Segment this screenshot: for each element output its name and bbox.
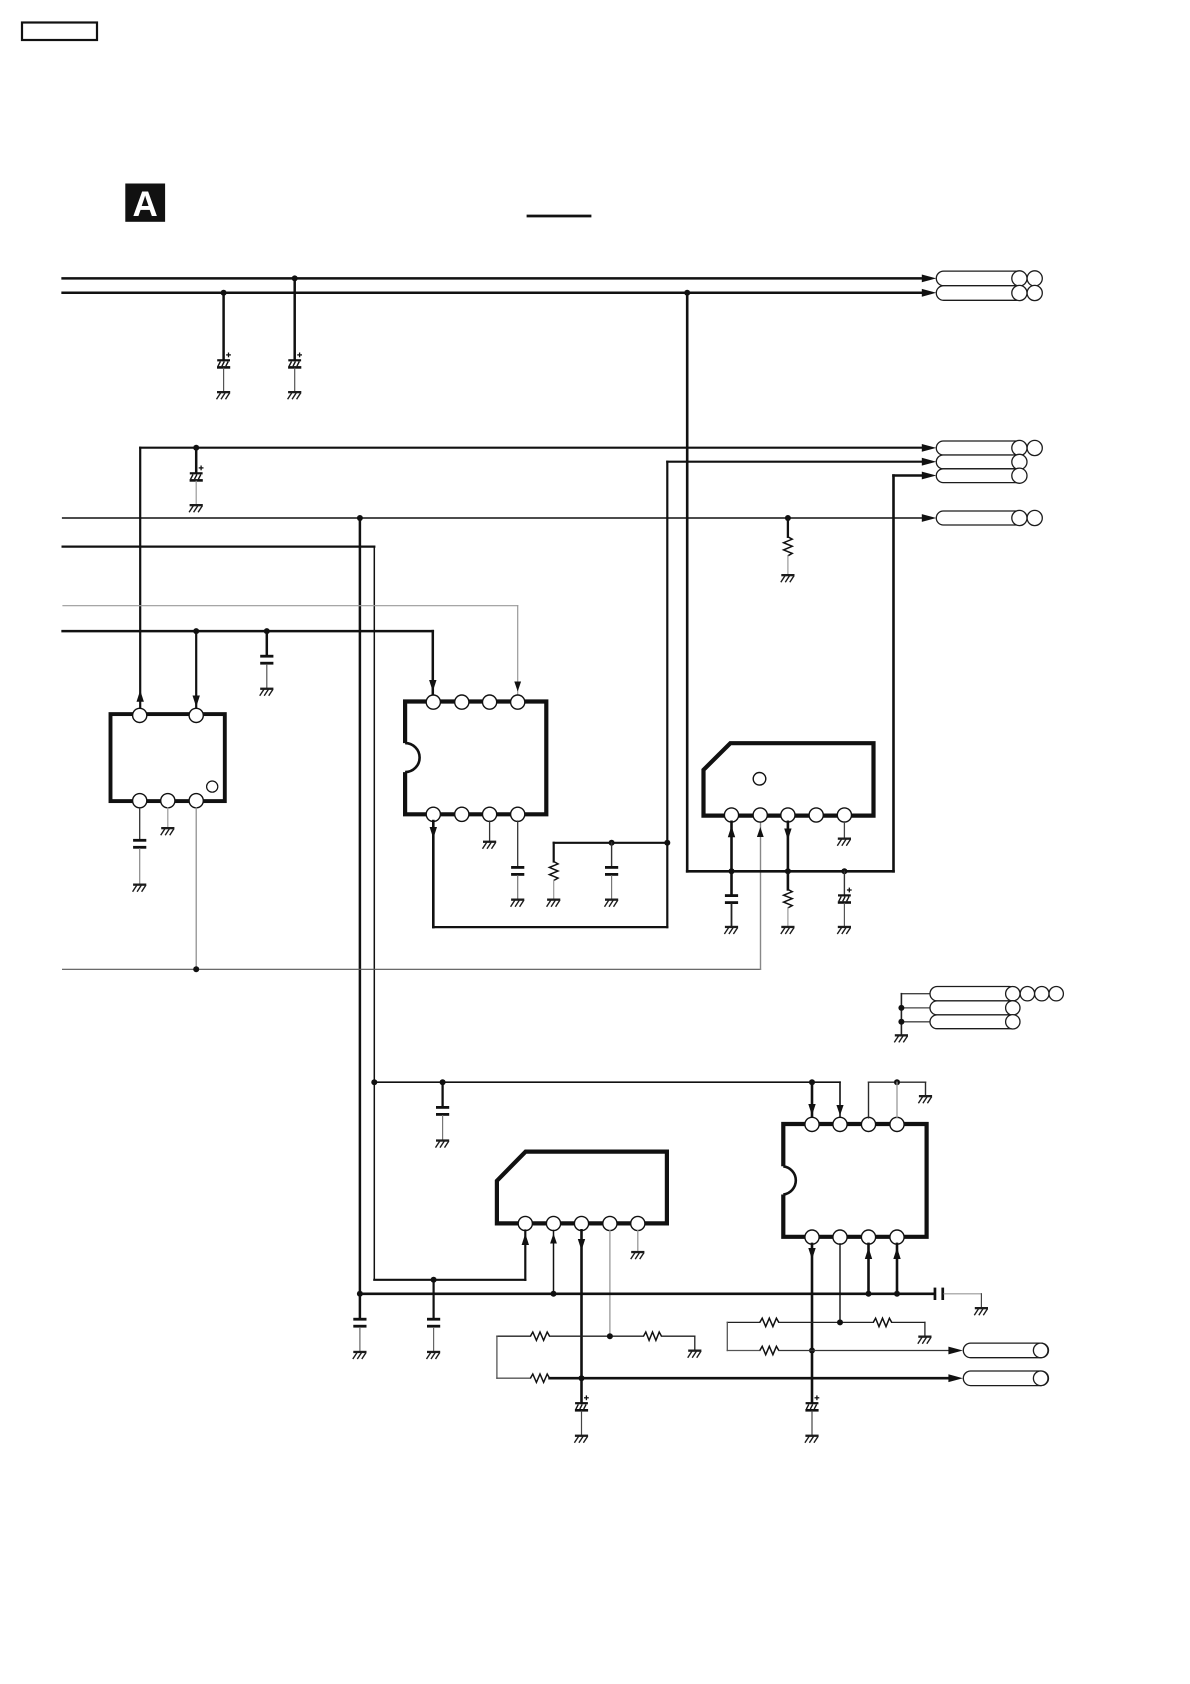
arrow into U3 pin 2 xyxy=(757,827,764,837)
ground at U5 bracket xyxy=(918,1095,932,1103)
wire cap C8 lead xyxy=(730,871,733,894)
junction second rail right xyxy=(684,290,690,296)
arrow into U5 pin 1 xyxy=(808,1104,815,1116)
arrow into U4 pin 2 xyxy=(550,1234,557,1244)
connector CN3 pin 3 (pill) xyxy=(930,1015,1020,1029)
junction feed at C11 xyxy=(431,1277,437,1283)
U5 pin 7 (bottom) xyxy=(861,1230,875,1244)
wire cap C4 lead xyxy=(266,631,269,655)
wire net to CN2 pin 4 xyxy=(63,517,924,519)
wire U5 pin5 down xyxy=(811,1244,814,1402)
wire U2 pin5 down xyxy=(432,821,435,927)
ground under U3 pin 5 xyxy=(837,838,851,846)
junction y1082 at U5 pin1 xyxy=(809,1079,815,1085)
wire vertical to U3 pin 2 xyxy=(760,823,762,969)
wire CN3 pin2 lead xyxy=(901,1007,930,1009)
U5 pin 8 (bottom) xyxy=(890,1230,904,1244)
wire U5 pin7 down xyxy=(867,1244,870,1294)
wire C6 to ground xyxy=(517,876,519,899)
connector CN2 pin 2 (pill) xyxy=(936,454,1027,469)
junction RC net at x=667 xyxy=(664,840,670,846)
wire CN3 pin1 lead xyxy=(901,993,930,995)
arrow out of U4 pin 3 xyxy=(578,1239,585,1251)
wire CN3 pin3 lead xyxy=(901,1021,930,1023)
U4 pin 2 xyxy=(546,1216,560,1230)
junction y871 at C9 xyxy=(841,868,847,874)
junction output at U4 pin3 xyxy=(579,1375,585,1381)
resistor R5 xyxy=(644,1332,662,1340)
wire fb row1 to ground xyxy=(924,1322,926,1335)
arrow to connector CN4 pin 1 xyxy=(948,1347,963,1355)
junction U5 pin5 at net xyxy=(809,1348,815,1354)
wire U4 pin3 down xyxy=(580,1230,583,1402)
arrow to connector CN4 pin 2 xyxy=(948,1374,963,1382)
junction y1082 at C10 xyxy=(440,1079,446,1085)
ground under C1 xyxy=(217,391,231,399)
U4 pin 3 xyxy=(574,1216,588,1230)
arrow into U3 pin 1 xyxy=(728,826,735,838)
wire U4 pin5 lead xyxy=(637,1230,639,1251)
capacitor C15 (electrolytic, U4 output) xyxy=(575,1395,589,1411)
wire vertical x=360 (to bottom rail) xyxy=(359,518,362,1294)
arrow out of U5 pin 5 xyxy=(808,1248,815,1260)
arrow into U5 pin 8 xyxy=(893,1248,900,1260)
junction rail at U5 pin3 xyxy=(866,1291,872,1297)
wire U1 pin4 lead xyxy=(167,808,169,827)
wire feed to U4 pin 1 xyxy=(374,1231,525,1280)
capacitor C5 under U1 xyxy=(133,839,146,849)
wire to CN2 pin 3 xyxy=(894,474,924,477)
resistor R7 xyxy=(760,1318,779,1326)
wire vertical to U1 pin 1 xyxy=(139,448,141,709)
U1 pin 4 (bottom) xyxy=(161,794,175,808)
wire corner to U5 pin 2 xyxy=(839,1082,841,1116)
arrow to connector CN2 pin 4 xyxy=(922,514,937,522)
ground after C13 xyxy=(974,1307,988,1315)
U5 pin 6 (bottom) xyxy=(833,1230,847,1244)
wire U4 pin4 lead xyxy=(609,1230,611,1336)
capacitor C7 xyxy=(605,866,618,876)
arrow out of U3 pin 3 xyxy=(784,829,791,841)
U3 pin 4 xyxy=(809,808,823,822)
wire R2 to ground xyxy=(553,881,555,899)
arrow into U4 pin 1 xyxy=(522,1234,529,1246)
U1 pin 1 (top) xyxy=(133,708,147,722)
junction at R1 tap xyxy=(785,515,791,521)
wire cap C2 lead xyxy=(293,278,296,359)
wire vertical x=893 xyxy=(892,476,895,872)
wire U1 pin3 lead xyxy=(139,808,141,840)
arrow to connector CN1 pin 1 xyxy=(922,275,937,283)
wire C10 to ground xyxy=(442,1116,444,1140)
ground under C8 xyxy=(724,926,738,934)
wire C2 to ground xyxy=(294,368,296,391)
U5 pin 1 (top) xyxy=(805,1117,819,1131)
wire U1 pin5 lead xyxy=(195,808,197,970)
connector CN4 pin 1 (pill) xyxy=(963,1343,1048,1358)
U2 pin 8 (bottom) xyxy=(511,807,525,821)
wire vertical to U2 pin 4 xyxy=(517,606,519,694)
wire U3 bottom net y=871 xyxy=(687,870,893,873)
capacitor C2 (electrolytic) xyxy=(288,353,302,369)
arrow to connector CN2 pin 3 xyxy=(922,472,937,480)
IC U4 xyxy=(497,1152,667,1224)
IC U5 xyxy=(783,1124,926,1237)
resistor R2 xyxy=(549,862,558,881)
U2 pin 1 (top) xyxy=(426,695,440,709)
capacitor C4 xyxy=(260,655,273,665)
ground under R3 xyxy=(781,926,795,934)
resistor R2 lead xyxy=(553,843,555,862)
wire cap C11 lead xyxy=(433,1280,435,1318)
wire bus (second rail) xyxy=(63,292,924,295)
U4 pin 5 xyxy=(631,1216,645,1230)
wire C14 to ground xyxy=(811,1411,813,1434)
ground under C14 xyxy=(805,1435,819,1443)
wire U4 output net xyxy=(550,1377,950,1380)
junction rail at U4 pin2 xyxy=(551,1291,557,1297)
wire C12 to ground xyxy=(359,1328,361,1351)
connector CN3 pin 1 (pill) xyxy=(930,987,1063,1001)
wire cap C10 lead xyxy=(441,1082,443,1106)
U1 index mark xyxy=(207,781,218,792)
capacitor C1 (electrolytic) xyxy=(217,353,231,369)
capacitor C12 xyxy=(353,1318,366,1328)
U4 pin 1 xyxy=(518,1216,532,1230)
capacitor C9 (electrolytic) xyxy=(838,888,852,904)
wire supply net y=1082 xyxy=(374,1081,840,1083)
junction at x=360 drop xyxy=(357,515,363,521)
wire net row 4 left xyxy=(63,630,433,633)
wire U5 fb row2 xyxy=(727,1350,760,1352)
U3 pin 1 xyxy=(724,808,738,822)
wire U4 fb row2 xyxy=(497,1377,531,1379)
wire net to CN2 pin 1 xyxy=(140,447,923,449)
connector CN1 pin 2 (pill) xyxy=(936,285,1042,300)
wire bottom rail y=1293 xyxy=(360,1293,934,1296)
junction rail at U5 pin4 xyxy=(894,1291,900,1297)
wire vertical x=687 (rail to U3 net) xyxy=(686,293,689,872)
resistor R9 xyxy=(760,1346,779,1354)
wire U4 fb row1 xyxy=(497,1335,695,1337)
wire U4 pin2 down xyxy=(553,1231,555,1294)
wire C5 to ground xyxy=(139,849,141,884)
U3 pin 3 xyxy=(781,808,795,822)
capacitor C11 xyxy=(427,1318,440,1328)
wire cap C1 lead xyxy=(222,293,225,360)
IC U2 xyxy=(405,702,546,815)
arrow out of U1 pin 1 xyxy=(137,690,144,702)
arrow into U2 pin 4 xyxy=(514,682,521,692)
U3 pin 2 xyxy=(753,808,767,822)
section marker A xyxy=(125,184,165,225)
U2 pin 7 (bottom) xyxy=(483,807,497,821)
capacitor C13 (series, rail end) xyxy=(934,1288,982,1307)
wire RC net xyxy=(554,842,668,844)
connector CN4 pin 2 (pill) xyxy=(963,1371,1048,1386)
U5 pin 2 (top) xyxy=(833,1117,847,1131)
ground under C3 xyxy=(189,504,203,512)
wire bottom return y=927 xyxy=(433,926,667,928)
junction y871 at R3 xyxy=(785,868,791,874)
resistor R4 xyxy=(530,1332,549,1340)
junction rail at x=360 xyxy=(357,1291,363,1297)
wire C3 to ground xyxy=(195,481,197,504)
ground under U4 pin 5 xyxy=(631,1251,645,1259)
resistor R8 xyxy=(873,1318,891,1326)
label box (top-left) xyxy=(22,23,97,41)
U2 pin 2 (top) xyxy=(455,695,469,709)
U3 pin 5 xyxy=(837,808,851,822)
ground under C4 xyxy=(260,688,274,696)
wire vertical x=667 xyxy=(666,462,668,927)
junction second rail left xyxy=(221,290,227,296)
ground under C12 xyxy=(353,1351,367,1359)
wire U5 pin8 down xyxy=(896,1244,899,1294)
U1 pin 3 (bottom) xyxy=(133,794,147,808)
U2 pin 4 (top) xyxy=(511,695,525,709)
wire bus B+ (top rail) xyxy=(63,277,924,280)
ground at U4 fb xyxy=(688,1350,702,1358)
wire U5 fb row1 xyxy=(727,1321,925,1323)
wire C7 to ground xyxy=(611,876,613,899)
junction to U1 pin 2 xyxy=(193,628,199,634)
U5 pin 4 (top) xyxy=(890,1117,904,1131)
svg-text:A: A xyxy=(133,185,158,224)
junction CN3 pin3 xyxy=(898,1019,904,1025)
wire cap C12 lead xyxy=(359,1294,362,1318)
ground under C10 xyxy=(436,1139,450,1147)
resistor R3 lead xyxy=(787,871,790,889)
IC U1 xyxy=(111,714,225,801)
arrow out of U2 pin 5 xyxy=(430,827,437,839)
ground under U2 pin 7 xyxy=(483,841,497,849)
connector CN1 pin 1 (pill) xyxy=(936,271,1042,286)
wire U4 fb left link xyxy=(496,1336,498,1378)
capacitor C10 xyxy=(436,1106,449,1116)
wire CN3 ground bus xyxy=(900,994,902,1034)
wire U5 output net xyxy=(779,1350,950,1352)
wire U3 pin1 down xyxy=(730,822,733,872)
wire R1 to ground xyxy=(787,556,789,574)
junction CN3 pin2 xyxy=(898,1005,904,1011)
resistor R1 lead xyxy=(787,518,789,537)
connector CN2 pin 4 (pill) xyxy=(936,510,1042,525)
wire U2 pin8 lead xyxy=(517,821,519,866)
wire C15 to ground xyxy=(581,1411,583,1434)
ground under C5 xyxy=(133,884,147,892)
wire vertical to U2 pin 1 xyxy=(432,631,435,694)
wire vertical to U1 pin 2 xyxy=(195,631,197,709)
arrow to connector CN2 pin 2 xyxy=(922,458,937,466)
junction on top rail xyxy=(292,275,298,281)
capacitor C6 under U2 xyxy=(511,866,524,876)
resistor R3 xyxy=(784,889,793,908)
capacitor C8 xyxy=(725,894,738,904)
arrow to connector CN2 pin 1 xyxy=(922,444,937,452)
ground CN3 xyxy=(894,1034,908,1042)
junction RC net at C7 xyxy=(609,840,615,846)
connector CN2 pin 1 (pill) xyxy=(936,440,1042,455)
title underline xyxy=(528,215,590,218)
IC U3 xyxy=(704,743,874,815)
arrow into U1 pin 2 xyxy=(193,696,200,708)
ground at U5 fb xyxy=(918,1336,932,1344)
U3 index mark xyxy=(753,773,766,786)
wire C1 to ground xyxy=(223,368,225,391)
wire cap C7 lead xyxy=(611,843,613,866)
ground under R2 xyxy=(547,899,561,907)
wire to CN2 pin 2 xyxy=(667,461,923,463)
junction y871 at C8 xyxy=(729,868,735,874)
wire into U5 pin 1 xyxy=(811,1082,814,1116)
ground under U1 pin 4 xyxy=(161,827,175,835)
wire U5 pin4 lead xyxy=(896,1082,898,1118)
capacitor C14 (electrolytic) xyxy=(805,1395,819,1411)
ground under C9 xyxy=(837,926,851,934)
wire R3 to ground xyxy=(787,908,789,926)
U2 pin 6 (bottom) xyxy=(455,807,469,821)
wire C9 to ground xyxy=(843,903,845,925)
wire C8 to ground xyxy=(731,904,733,926)
arrow to connector CN1 pin 2 xyxy=(922,289,937,297)
wire cap C9 lead xyxy=(843,871,845,894)
junction at C3 tap xyxy=(193,445,199,451)
arrow into U5 pin 7 xyxy=(865,1248,872,1260)
ground under R1 xyxy=(781,574,795,582)
wire net row 3 left (signal) xyxy=(63,605,518,607)
wire vertical x=374 xyxy=(373,547,375,1280)
U1 pin 2 (top) xyxy=(189,708,203,722)
junction fb row1 at U5 pin6 xyxy=(837,1319,843,1325)
wire U2 pin7 lead xyxy=(489,821,491,841)
wire cap C3 lead xyxy=(195,448,198,473)
arrow into U5 pin 2 xyxy=(836,1105,843,1116)
capacitor C3 (electrolytic) xyxy=(190,466,204,482)
ground under C7 xyxy=(605,899,619,907)
connector CN3 pin 2 (pill) xyxy=(930,1001,1020,1015)
wire U5 pin3 bracket xyxy=(869,1082,926,1118)
resistor R1 xyxy=(784,537,793,556)
wire U5 fb left link xyxy=(726,1322,728,1350)
ground under C2 xyxy=(288,391,302,399)
wire bracket to ground xyxy=(925,1082,927,1095)
U5 pin 5 (bottom) xyxy=(805,1230,819,1244)
U5 pin 3 (top) xyxy=(861,1117,875,1131)
junction fb row1 at U4 pin4 xyxy=(607,1333,613,1339)
wire U3 pin5 lead xyxy=(843,822,845,838)
U1 pin 5 (bottom) xyxy=(189,794,203,808)
U2 pin 3 (top) xyxy=(483,695,497,709)
ground under C15 xyxy=(574,1435,588,1443)
U2 pin 5 (bottom) xyxy=(426,807,440,821)
wire long net y=969 xyxy=(63,968,761,970)
junction bracket at pin 4 xyxy=(894,1079,900,1085)
ground under C11 xyxy=(427,1351,441,1359)
junction at U1 pin5 xyxy=(193,966,199,972)
junction to C4 xyxy=(264,628,270,634)
wire fb row1 to ground xyxy=(694,1336,696,1349)
wire C4 to ground xyxy=(266,665,268,688)
U4 pin 4 xyxy=(603,1216,617,1230)
resistor R6 xyxy=(530,1374,549,1382)
wire C11 to ground xyxy=(433,1328,435,1351)
wire U3 pin3 down xyxy=(787,822,790,872)
arrow into U2 pin 1 xyxy=(429,680,436,692)
wire net row 2 left xyxy=(63,545,375,547)
ground under C6 xyxy=(511,899,525,907)
junction y1082 x374 xyxy=(371,1079,377,1085)
wire U5 pin6 down xyxy=(839,1244,841,1323)
connector CN2 pin 3 (pill) xyxy=(936,468,1027,483)
